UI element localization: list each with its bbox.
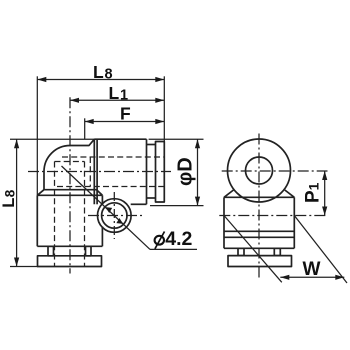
svg-text:F: F <box>120 103 131 123</box>
svg-text:L8: L8 <box>0 189 18 208</box>
svg-text:W: W <box>303 259 321 280</box>
svg-text:φD: φD <box>175 157 197 186</box>
svg-text:4.2: 4.2 <box>165 228 192 250</box>
svg-text:P1: P1 <box>303 182 324 203</box>
